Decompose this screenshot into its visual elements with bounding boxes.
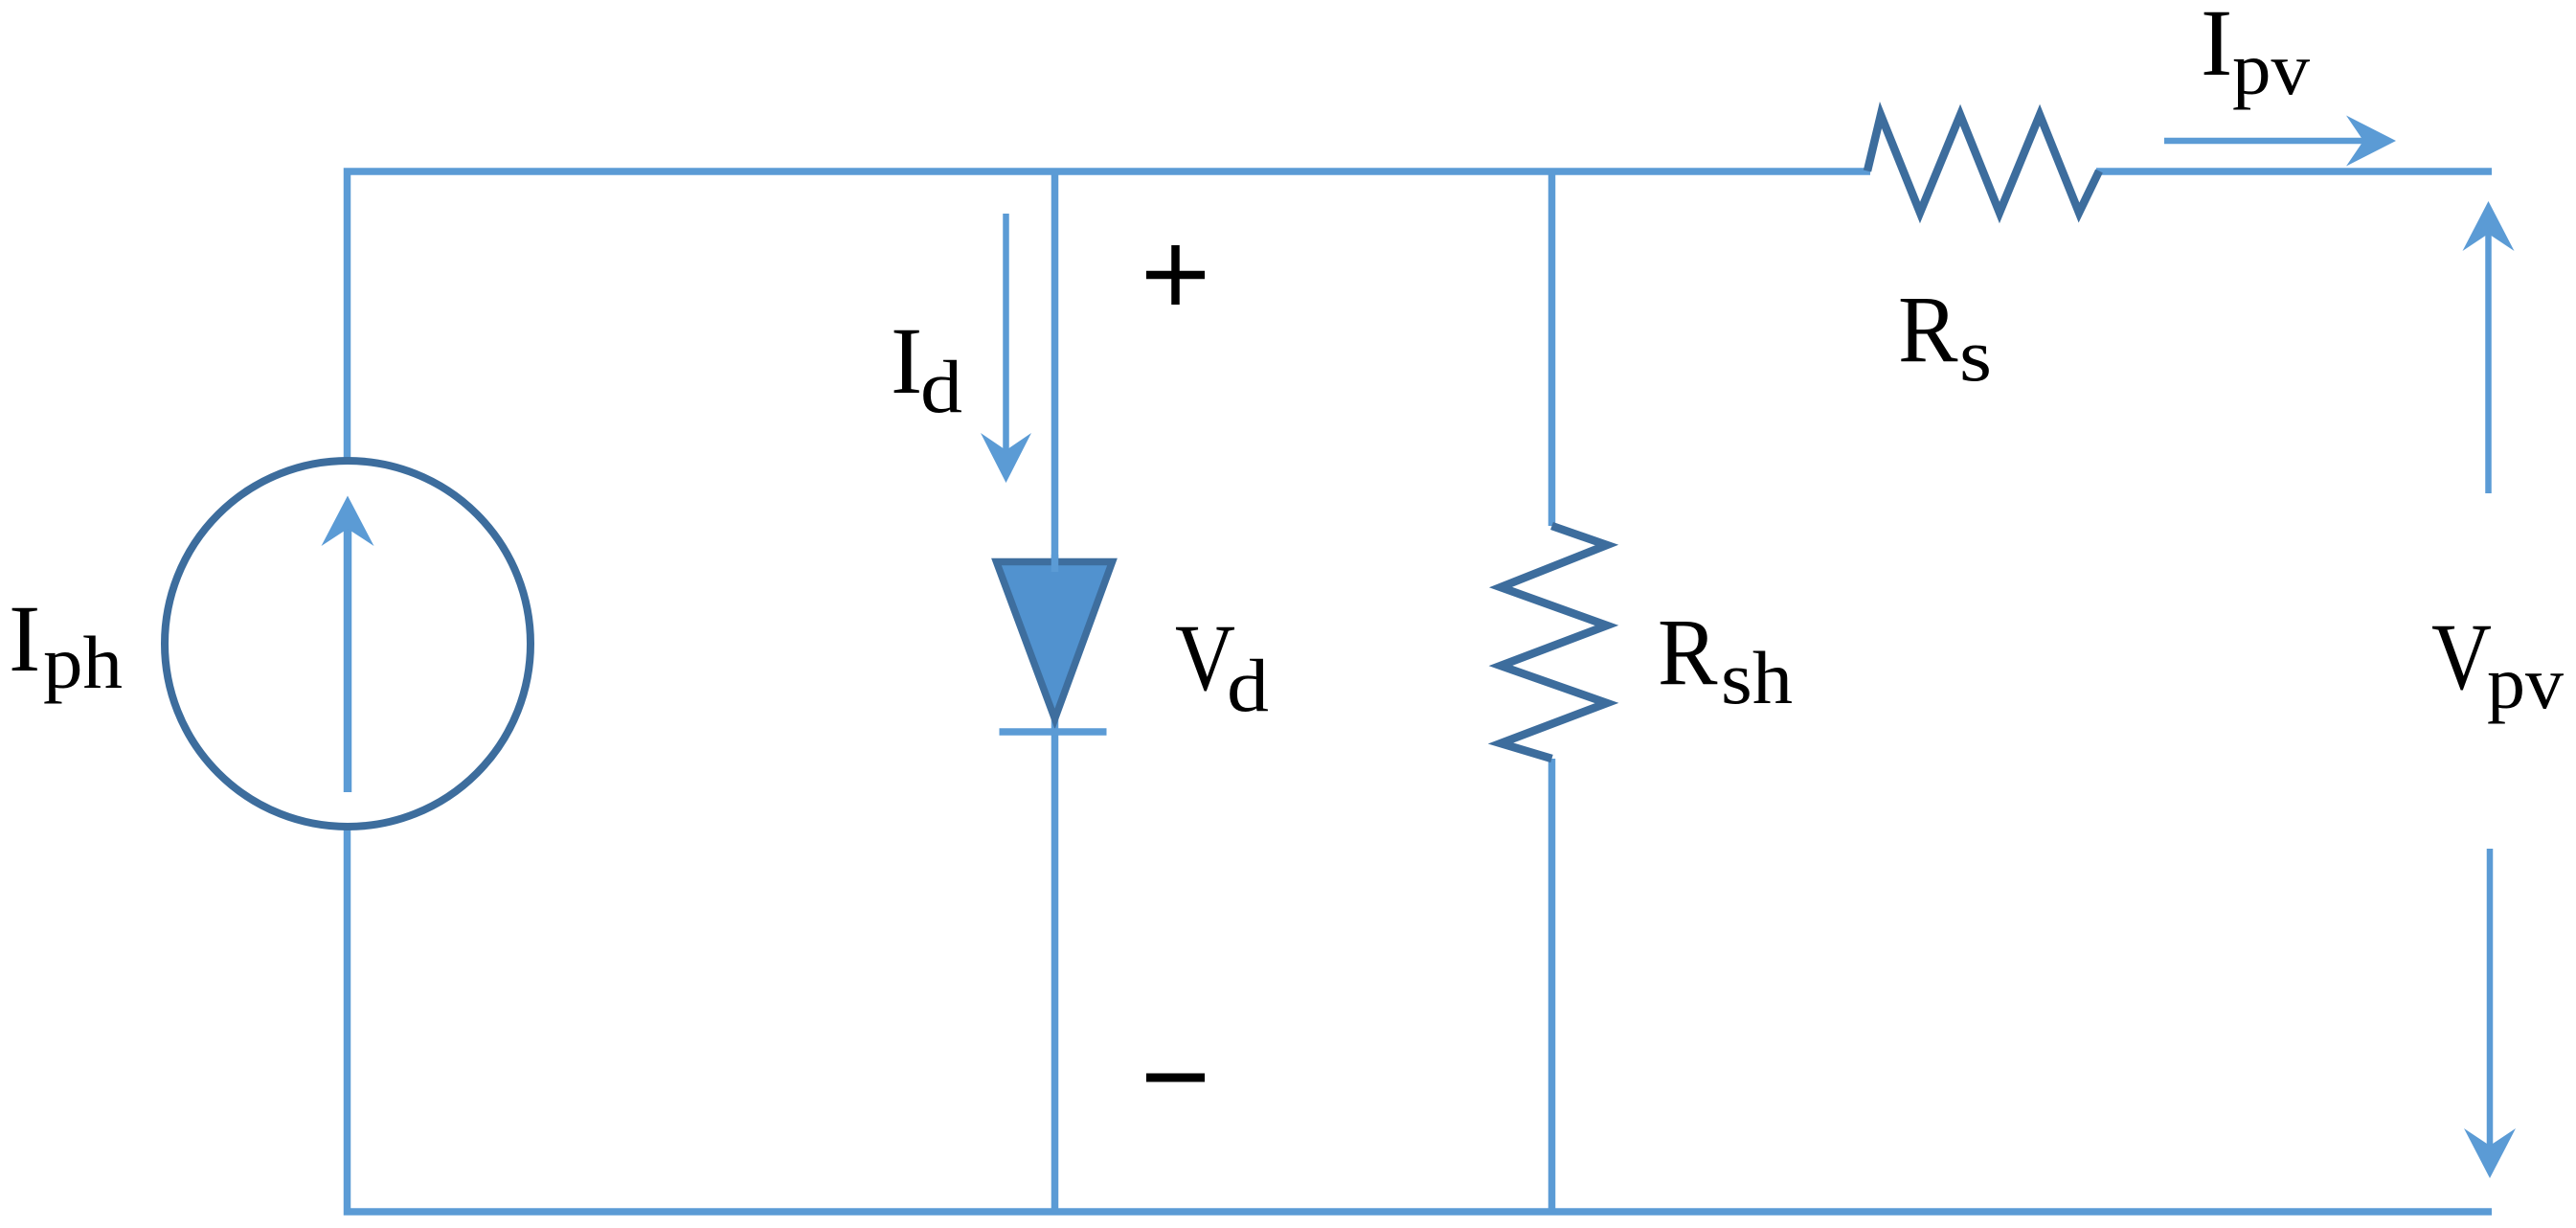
arrow I_pv head [2346,116,2396,167]
svg-text:pv: pv [2232,27,2310,110]
wire top-right: Rs to right terminal [2096,168,2492,175]
svg-text:s: s [1959,313,1992,397]
current source arrow stem [344,525,352,792]
plus sign [1146,245,1205,305]
arrow V_pv up stem [2485,226,2492,493]
svg-text:pv: pv [2487,641,2564,724]
current source arrowhead [322,496,374,547]
svg-text:I: I [2201,0,2232,96]
arrow V_pv up head [2463,201,2515,251]
svg-text:R: R [1658,599,1718,705]
wire diode branch [1051,171,1059,1212]
svg-text:ph: ph [43,621,123,704]
diode D triangle [997,562,1113,719]
wire Rsh branch top [1548,171,1556,526]
svg-text:I: I [9,585,40,692]
current source I_ph circle [165,461,531,827]
diode cathode bar [1000,728,1107,736]
minus sign [1146,1074,1205,1082]
arrow I_d stem [1003,214,1009,458]
svg-text:R: R [1898,276,1958,382]
resistor R_sh zigzag [1501,526,1607,759]
wire stub into diode top [1051,555,1059,572]
arrow V_pv down stem [2487,849,2494,1153]
arrow I_d head [981,433,1031,483]
arrow V_pv down head [2464,1128,2516,1178]
svg-text:sh: sh [1721,636,1793,719]
svg-text:I: I [891,307,922,414]
resistor R_s zigzag [1867,115,2099,213]
wire top-left: left vertical + top horizontal to Rs [348,171,1871,462]
svg-text:d: d [920,345,962,428]
wire Rsh branch bottom [1548,759,1556,1212]
wire bottom: left vertical + bottom horizontal [348,826,2493,1212]
arrow I_pv stem [2164,138,2371,145]
svg-text:V: V [2431,603,2492,710]
svg-text:d: d [1227,644,1269,727]
